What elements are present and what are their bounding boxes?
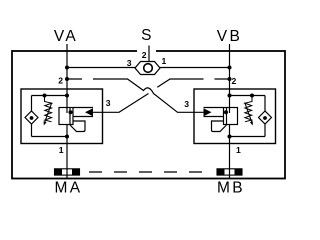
svg-text:VB: VB [217,28,242,45]
svg-text:1: 1 [236,145,241,155]
svg-text:3: 3 [184,99,189,109]
svg-text:S: S [141,27,154,44]
svg-text:3: 3 [127,58,132,68]
svg-text:VA: VA [54,28,78,45]
svg-text:3: 3 [106,98,111,108]
svg-text:2: 2 [142,50,147,60]
svg-text:1: 1 [162,56,167,66]
svg-text:1: 1 [59,145,64,155]
svg-text:2: 2 [58,76,63,86]
svg-text:MB: MB [217,180,245,197]
svg-text:2: 2 [232,76,237,86]
svg-text:MA: MA [54,180,82,197]
